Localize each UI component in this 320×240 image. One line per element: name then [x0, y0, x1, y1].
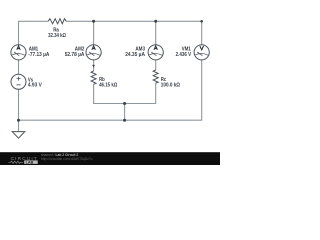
- ammeter AM1: [11, 45, 26, 60]
- svg-text:4.93 V: 4.93 V: [28, 83, 42, 89]
- logo LAB: [24, 160, 38, 164]
- arrow AM2 direction: [92, 65, 95, 68]
- voltmeter VM1: [194, 45, 209, 60]
- svg-text:52.78 µA: 52.78 µA: [65, 52, 85, 58]
- node junction top right branch: [154, 20, 157, 23]
- wire left branch Vs to AM1: [18, 60, 20, 75]
- wire right branch AM3/Rc: [155, 21, 157, 70]
- svg-text:-77.13 µA: -77.13 µA: [28, 52, 49, 58]
- svg-text:24.35 µA: 24.35 µA: [125, 52, 145, 58]
- resistor Ra: [48, 19, 66, 24]
- voltage source Vs: [11, 74, 26, 89]
- node junction rail mid: [123, 119, 126, 122]
- wire top rail right segment: [19, 21, 202, 120]
- resistor Rb: [91, 71, 96, 84]
- wire top rail left segment: [19, 21, 49, 45]
- wire middle branch AM2/Rb: [94, 21, 156, 103]
- node junction bar mid: [123, 102, 126, 105]
- ammeter AM2: [86, 45, 101, 60]
- wire mid drop to bottom rail: [124, 104, 126, 121]
- node junction bottom left: [17, 119, 20, 122]
- ammeter AM3: [148, 45, 163, 60]
- svg-text:LAB: LAB: [26, 160, 34, 164]
- svg-text:2.436 V: 2.436 V: [176, 52, 192, 58]
- svg-text:46.15 kΩ: 46.15 kΩ: [99, 83, 117, 89]
- footer bar: [0, 152, 220, 165]
- logo squiggle: [9, 161, 24, 163]
- canvas background: [0, 0, 220, 165]
- node junction top mid: [92, 20, 95, 23]
- resistor Rc: [153, 70, 158, 83]
- svg-text:100.0 kΩ: 100.0 kΩ: [161, 83, 180, 89]
- ground: [12, 132, 25, 139]
- node corner top far right: [200, 20, 203, 23]
- svg-text:32.34 kΩ: 32.34 kΩ: [48, 33, 66, 39]
- wire Vs to ground node: [18, 89, 20, 131]
- svg-text:http://circuitlab.com/c64k9T5q: http://circuitlab.com/c64k9T5qDz7u: [41, 157, 93, 161]
